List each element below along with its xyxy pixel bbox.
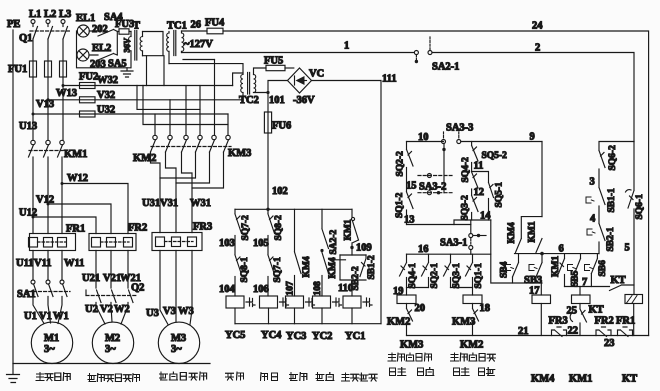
svg-text:L2: L2: [44, 9, 56, 20]
node 12: [472, 187, 484, 198]
svg-text:24: 24: [532, 21, 543, 32]
clutch YC1: [343, 296, 372, 324]
switch SQ5-2: [472, 142, 507, 162]
fuse FU4: [205, 18, 225, 34]
wire lamp common: [77, 31, 131, 68]
transformer TC1: [167, 21, 187, 64]
svg-text:FR2: FR2: [595, 316, 614, 327]
svg-text:V21: V21: [103, 273, 121, 284]
wire line 7: [565, 277, 610, 288]
svg-text:SA3-2: SA3-2: [419, 182, 446, 193]
wire V12 tap: [36, 195, 111, 234]
label 向后: [418, 368, 434, 376]
wire U12 tap: [19, 208, 96, 234]
coil KM1: [572, 287, 591, 309]
coil KT: [625, 295, 643, 336]
switch SA1: [17, 280, 70, 300]
contactor KM3 main contacts: [196, 135, 252, 159]
switch SQ7-2: [235, 209, 251, 240]
svg-text:9: 9: [530, 132, 535, 143]
label 向后: [418, 368, 434, 376]
coil KM3: [463, 295, 482, 308]
svg-text:102: 102: [272, 186, 288, 197]
label 向下: [454, 368, 470, 376]
svg-text:SQ2-1: SQ2-1: [430, 263, 440, 289]
svg-text:U13: U13: [19, 121, 37, 132]
contact FR3: [549, 316, 568, 337]
svg-text:V13: V13: [36, 99, 54, 110]
svg-text:U11: U11: [16, 258, 34, 269]
node 17: [529, 283, 541, 297]
svg-text:FU4: FU4: [205, 18, 225, 29]
svg-text:105: 105: [253, 238, 269, 249]
svg-text:2: 2: [535, 43, 540, 54]
node 107: [286, 276, 296, 297]
svg-text:SB2-1: SB2-1: [606, 227, 616, 252]
wire 9 to bracket: [541, 142, 543, 217]
svg-text:U3: U3: [146, 308, 159, 319]
svg-text:11: 11: [474, 161, 484, 172]
svg-text:SA2-2: SA2-2: [329, 229, 339, 254]
switch SA3-3: [442, 123, 474, 193]
label U1 V1 W1: [24, 311, 69, 322]
svg-text:KM3: KM3: [452, 317, 475, 328]
wire L2 drop: [47, 39, 49, 61]
lamp EL2: [77, 43, 111, 70]
fuse FU5: [264, 56, 294, 71]
fuse FU3: [115, 19, 134, 34]
svg-text:M3: M3: [171, 333, 186, 344]
label 主电动机: [36, 373, 70, 381]
svg-text:KM1: KM1: [551, 256, 561, 277]
svg-text:SB5: SB5: [571, 270, 581, 287]
wire V32 line: [48, 99, 243, 101]
svg-text:16: 16: [418, 244, 429, 255]
wire W32 to TC2: [233, 73, 243, 86]
svg-text:3~: 3~: [171, 344, 182, 355]
node 108: [313, 276, 323, 297]
pushbutton SB3: [524, 254, 542, 286]
wire bottom rail: [13, 363, 210, 365]
wire SA1 to M1: [33, 297, 62, 324]
fuse FU2 (three): [79, 72, 98, 118]
wire line 1: [182, 41, 415, 53]
svg-text:SQ1-1: SQ1-1: [474, 263, 484, 289]
svg-text:SA5: SA5: [108, 59, 127, 70]
switch SA4: [89, 12, 123, 36]
wire line 9: [461, 132, 542, 143]
fuse FU6: [264, 112, 291, 133]
transformer TC2: [239, 68, 268, 106]
wire W phase: [62, 77, 64, 140]
svg-text:V1: V1: [39, 311, 52, 322]
contact KM1 (YC1): [344, 209, 359, 240]
label U2 V2 W2: [85, 304, 130, 315]
wire V12 drop: [47, 157, 49, 234]
thermal relay FR3 heaters: [152, 222, 212, 251]
pushbutton SB5: [568, 254, 581, 287]
svg-text:KM1: KM1: [344, 219, 354, 240]
svg-text:U21: U21: [82, 273, 100, 284]
svg-text:SQ4-1: SQ4-1: [408, 263, 418, 289]
svg-text:TC1: TC1: [167, 21, 187, 32]
svg-text:KM2: KM2: [133, 153, 156, 164]
label 进给: [316, 373, 334, 381]
wire FR1 to SA1: [33, 251, 62, 281]
label 工作台向左: [388, 353, 432, 361]
label 快移: [290, 373, 307, 381]
contact KM4 parallel: [507, 217, 542, 253]
pushbutton SB2-1: [587, 224, 616, 254]
svg-text:1: 1: [344, 41, 349, 52]
label 向上: [390, 368, 406, 376]
svg-text:SQ8-2: SQ8-2: [274, 215, 284, 241]
svg-text:KM4: KM4: [302, 256, 312, 277]
contact KT delayed: [570, 305, 604, 336]
svg-text:KT: KT: [589, 305, 604, 316]
svg-text:3: 3: [590, 177, 595, 188]
wire line 6: [515, 244, 600, 256]
switch SQ4-1: [400, 254, 419, 288]
svg-text:V3: V3: [163, 306, 176, 317]
wire line 10: [407, 132, 444, 143]
svg-text:YC4: YC4: [261, 330, 282, 341]
node 11: [472, 161, 484, 172]
label 进给: [316, 373, 334, 381]
svg-text:15: 15: [406, 181, 417, 192]
svg-text:W11: W11: [64, 258, 84, 269]
svg-text:SQ7-1: SQ7-1: [273, 257, 283, 283]
wire SB parallel bracket: [340, 255, 366, 280]
label 工作台向右: [451, 353, 496, 361]
switch SQ3-1: [444, 254, 463, 288]
label 进给电动机: [160, 372, 207, 380]
contactor KM1 main contacts: [29, 140, 88, 160]
pushbutton SB1-2: [360, 255, 377, 280]
thermal relay FR2 heaters: [89, 223, 147, 251]
label U21 V21 W21: [82, 273, 141, 284]
label 工作台向左: [388, 353, 432, 361]
thermal relay FR1 heaters: [29, 224, 86, 251]
label 横向: [261, 373, 278, 381]
node L1: [29, 9, 41, 27]
svg-text:EL1: EL1: [76, 13, 95, 24]
contact KM1 selfhold: [551, 254, 565, 287]
svg-text:FR2: FR2: [128, 223, 147, 234]
svg-text:-36V: -36V: [293, 95, 315, 106]
svg-text:12: 12: [474, 187, 485, 198]
node 109: [350, 240, 371, 255]
label U3 V3 W3: [146, 306, 194, 319]
label 主轴制动: [342, 373, 378, 381]
label 主轴制动: [342, 373, 378, 381]
svg-text:TC2: TC2: [239, 95, 259, 106]
node L3: [59, 9, 71, 27]
svg-text:4: 4: [590, 214, 596, 225]
switch SQ7-1: [268, 255, 283, 283]
svg-text:KM1: KM1: [528, 221, 538, 242]
wire TC1 aux drop: [183, 59, 215, 61]
svg-text:5: 5: [625, 243, 630, 254]
svg-text:L1: L1: [29, 9, 41, 20]
wire node 14 to 17: [491, 220, 542, 283]
transformer T: [129, 21, 143, 68]
wire bus 102: [235, 208, 352, 210]
switch Q2: [86, 283, 144, 303]
wire node 14: [454, 211, 491, 225]
switch SA3-2: [418, 174, 452, 195]
switch SQ2-2: [396, 142, 414, 177]
svg-text:W2: W2: [114, 304, 130, 315]
label 向下: [454, 368, 470, 376]
svg-text:SQ2-2: SQ2-2: [396, 151, 406, 177]
junction dots power taps: [32, 84, 65, 219]
svg-text:25: 25: [567, 306, 578, 317]
wire line 16: [407, 244, 491, 255]
svg-text:SQ4-2: SQ4-2: [461, 157, 471, 183]
svg-text:M1: M1: [44, 333, 59, 344]
coil KM4: [532, 295, 551, 336]
contact KM3 interlock: [387, 309, 423, 351]
svg-text:U32: U32: [97, 105, 115, 116]
svg-text:SA3-1: SA3-1: [440, 238, 467, 249]
svg-text:EL2: EL2: [92, 43, 111, 54]
svg-text:18: 18: [480, 303, 491, 314]
wire line 24 top: [182, 30, 208, 32]
svg-text:SQ6-2: SQ6-2: [608, 145, 618, 171]
wire line 2: [432, 43, 634, 142]
svg-text:YC5: YC5: [225, 330, 245, 341]
node 103: [219, 236, 235, 255]
switch SQ8-1: [235, 255, 250, 283]
svg-text:SQ5-2: SQ5-2: [482, 151, 508, 161]
wire SQ6-2 branch top: [599, 142, 634, 151]
clutch YC2: [313, 296, 342, 324]
ground PE: [7, 364, 20, 383]
pushbutton SB6: [585, 254, 609, 287]
wire T drops: [147, 56, 165, 86]
contact KM2 interlock: [452, 309, 483, 351]
label 快移: [290, 373, 307, 381]
svg-text:KT: KT: [622, 374, 637, 385]
label 向前: [479, 368, 495, 376]
svg-text:T: T: [133, 21, 140, 32]
label 冷却泵电动机: [88, 374, 140, 382]
svg-text:SQ3-2: SQ3-2: [461, 195, 471, 221]
motor M2: [92, 322, 133, 363]
svg-text:FR3: FR3: [549, 316, 568, 327]
svg-text:104: 104: [219, 284, 236, 295]
svg-text:FR3: FR3: [193, 222, 212, 233]
wire node 101: [268, 81, 288, 113]
wire node 111: [312, 74, 397, 324]
label 进给电动机: [160, 372, 207, 380]
pushbutton SB2-2: [335, 255, 362, 291]
svg-text:U31: U31: [142, 198, 160, 209]
wire line 24: [223, 21, 649, 336]
svg-text:SQ5-1: SQ5-1: [495, 182, 505, 208]
svg-text:22: 22: [568, 326, 579, 337]
contact KM4 (YC3): [295, 209, 313, 277]
ground lamp circuit: [121, 68, 133, 77]
wire rail 21: [407, 326, 649, 337]
svg-text:6: 6: [559, 244, 564, 255]
svg-text:26: 26: [191, 20, 202, 31]
node 106: [253, 277, 269, 297]
clutch YC5: [226, 296, 255, 324]
coil KM2: [397, 295, 416, 308]
node L2: [44, 9, 56, 27]
svg-text:110: 110: [338, 283, 353, 294]
wire node 13: [404, 215, 471, 226]
svg-text:SQ3-1: SQ3-1: [452, 263, 462, 289]
svg-text:FR1: FR1: [616, 316, 635, 327]
wire U12 drop: [32, 157, 34, 234]
wire TC1 to TC2: [169, 64, 243, 74]
wire clutch return rail: [235, 323, 381, 325]
node PE: [7, 19, 20, 364]
wire W12 tap: [62, 173, 128, 234]
label 升降: [226, 372, 244, 380]
svg-text:KM1: KM1: [569, 374, 592, 385]
svg-text:KM4: KM4: [531, 374, 555, 385]
svg-text:SQ8-1: SQ8-1: [240, 257, 250, 283]
switch SA3-1: [440, 220, 486, 254]
clutch YC3: [286, 296, 315, 324]
svg-text:SB4: SB4: [500, 261, 510, 278]
wire U32 line: [33, 113, 228, 115]
node 15: [406, 168, 417, 192]
wire U phase: [32, 77, 34, 140]
label U31 V31 W31: [142, 198, 211, 209]
svg-text:3~: 3~: [44, 344, 55, 355]
label 向前: [479, 368, 495, 376]
motor M3: [158, 322, 199, 363]
node 110: [338, 280, 353, 296]
svg-text:W32: W32: [97, 75, 118, 86]
contact SA2-2 (YC2): [322, 209, 339, 254]
svg-text:SB1-2: SB1-2: [367, 255, 377, 280]
svg-text:YC1: YC1: [345, 331, 365, 342]
label 冷却泵电动机: [88, 374, 140, 382]
wire KM2 KM3 feeds: [137, 60, 228, 136]
pushbutton SB1-1: [586, 188, 617, 224]
wire Q2 to M2: [96, 303, 128, 325]
wire FR2 to Q2: [96, 251, 128, 289]
wire V phase: [47, 77, 49, 140]
svg-text:W3: W3: [178, 306, 194, 317]
contact KM1 parallel: [528, 221, 543, 252]
svg-text:SQ7-2: SQ7-2: [241, 215, 251, 241]
svg-text:SQ6-1: SQ6-1: [635, 194, 645, 220]
switch SQ4-2: [461, 157, 478, 188]
label 向上: [390, 368, 406, 376]
svg-text:SB3: SB3: [524, 275, 542, 286]
wire W32 line: [63, 85, 233, 87]
svg-text:23: 23: [604, 338, 615, 349]
switch SQ3-2: [461, 195, 479, 221]
svg-text:YC3: YC3: [286, 331, 306, 342]
svg-text:13: 13: [404, 215, 415, 226]
wire FU6 to node 102: [268, 133, 288, 209]
contact FR2: [595, 316, 614, 337]
wire T parallel box: [143, 32, 164, 56]
rectifier VC: [288, 68, 325, 93]
clutch YC4: [260, 296, 289, 324]
svg-text:PE: PE: [7, 19, 20, 30]
svg-text:SB1-1: SB1-1: [607, 188, 617, 213]
switch SQ8-2: [268, 209, 284, 240]
svg-text:SB6: SB6: [598, 260, 608, 277]
contact KT instantaneous: [610, 275, 635, 291]
svg-text:KM2: KM2: [460, 340, 483, 351]
svg-text:FU1: FU1: [8, 64, 27, 75]
svg-text:Q2: Q2: [131, 283, 144, 294]
label U11 V11 W11: [16, 258, 84, 269]
switch SQ2-1: [422, 254, 441, 288]
svg-text:3~: 3~: [105, 344, 116, 355]
wire W12 drop: [61, 157, 63, 234]
node 105: [253, 236, 269, 255]
svg-text:Q1: Q1: [19, 33, 32, 44]
svg-text:KM1: KM1: [64, 149, 87, 160]
wire crisscross KM2 KM3 outputs: [151, 152, 224, 233]
switch SQ1-1: [466, 254, 485, 288]
svg-text:W31: W31: [190, 198, 211, 209]
svg-text:111: 111: [382, 74, 397, 85]
svg-text:KM4: KM4: [507, 222, 517, 243]
switch SQ6-1: [626, 142, 646, 295]
pushbutton SB4: [500, 254, 519, 283]
label 主电动机: [36, 373, 70, 381]
wire KM3 pair join: [451, 288, 473, 296]
wire L1 drop: [32, 39, 34, 61]
svg-text:VC: VC: [309, 69, 324, 80]
svg-text:V31: V31: [160, 198, 178, 209]
switch Q1: [19, 27, 70, 45]
label 升降: [226, 372, 244, 380]
linkage KM2 KM3: [151, 146, 231, 148]
svg-text:V11: V11: [34, 258, 52, 269]
contactor KM2 main contacts: [133, 135, 188, 164]
svg-text:109: 109: [356, 243, 372, 254]
svg-text:20: 20: [415, 303, 426, 314]
svg-text:M2: M2: [105, 333, 120, 344]
wire FR3 to M3: [160, 251, 192, 325]
wire SA common: [114, 30, 118, 56]
svg-text:FR1: FR1: [66, 224, 85, 235]
svg-text:~127V: ~127V: [184, 39, 213, 50]
svg-text:101: 101: [269, 95, 285, 106]
svg-text:FU2: FU2: [79, 72, 98, 83]
svg-text:KM3: KM3: [228, 148, 251, 159]
svg-text:SA2-1: SA2-1: [432, 62, 459, 73]
switch SQ5-1: [472, 172, 505, 221]
lamp EL1: [76, 13, 108, 37]
switch SA2-1: [414, 37, 459, 73]
label 工作台向右: [451, 353, 496, 361]
wire L3 drop: [62, 39, 64, 61]
svg-text:U2: U2: [85, 304, 98, 315]
svg-text:KT: KT: [611, 275, 626, 286]
svg-text:FU6: FU6: [272, 121, 291, 132]
svg-text:L3: L3: [59, 9, 71, 20]
svg-text:V32: V32: [97, 90, 115, 101]
svg-text:V2: V2: [100, 304, 113, 315]
svg-text:W13: W13: [56, 88, 77, 99]
svg-text:W12: W12: [67, 173, 88, 184]
contact FR1: [616, 316, 635, 337]
